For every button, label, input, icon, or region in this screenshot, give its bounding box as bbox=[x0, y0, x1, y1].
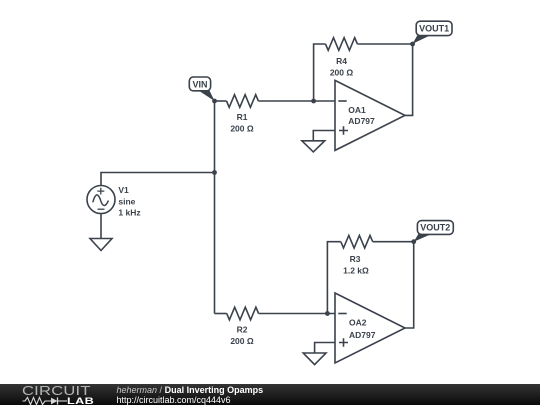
svg-text:VOUT2: VOUT2 bbox=[420, 223, 450, 233]
svg-text:V1: V1 bbox=[118, 185, 129, 195]
svg-text:R2: R2 bbox=[237, 325, 248, 335]
svg-text:AD797: AD797 bbox=[349, 330, 376, 340]
svg-text:sine: sine bbox=[118, 197, 135, 207]
svg-text:OA2: OA2 bbox=[349, 318, 367, 328]
svg-text:OA1: OA1 bbox=[348, 105, 366, 115]
svg-text:VIN: VIN bbox=[192, 79, 207, 89]
svg-text:200 Ω: 200 Ω bbox=[230, 124, 254, 134]
svg-text:R4: R4 bbox=[336, 56, 347, 66]
svg-text:AD797: AD797 bbox=[348, 116, 375, 126]
svg-text:200 Ω: 200 Ω bbox=[230, 336, 254, 346]
svg-text:1 kHz: 1 kHz bbox=[118, 207, 140, 217]
svg-text:200 Ω: 200 Ω bbox=[330, 68, 354, 78]
svg-text:R1: R1 bbox=[237, 112, 248, 122]
svg-text:VOUT1: VOUT1 bbox=[419, 24, 449, 34]
svg-text:R3: R3 bbox=[350, 254, 361, 264]
svg-text:1.2 kΩ: 1.2 kΩ bbox=[343, 266, 369, 276]
